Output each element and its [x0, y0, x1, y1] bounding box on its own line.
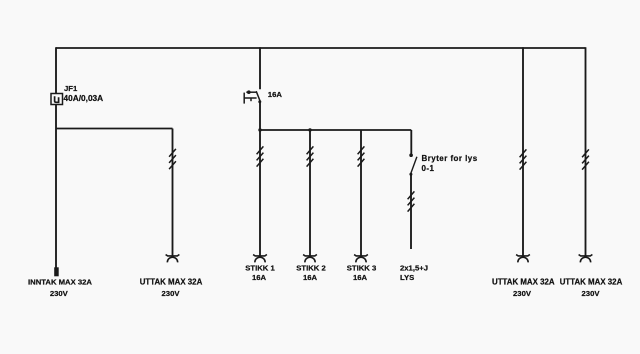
svg-text:230V: 230V: [582, 289, 601, 298]
svg-text:JF1: JF1: [64, 84, 78, 93]
svg-text:230V: 230V: [162, 289, 181, 298]
svg-text:16A: 16A: [252, 273, 267, 282]
svg-text:16A: 16A: [268, 90, 283, 99]
svg-text:UTTAK MAX 32A: UTTAK MAX 32A: [140, 278, 203, 287]
svg-text:Bryter for lys: Bryter for lys: [422, 154, 478, 163]
svg-text:STIKK 1: STIKK 1: [245, 263, 275, 272]
svg-text:UTTAK MAX 32A: UTTAK MAX 32A: [492, 278, 555, 287]
svg-text:16A: 16A: [353, 273, 368, 282]
svg-text:STIKK 2: STIKK 2: [296, 263, 325, 272]
svg-text:LYS: LYS: [400, 273, 414, 282]
svg-text:230V: 230V: [50, 289, 69, 298]
svg-text:2x1,5+J: 2x1,5+J: [400, 263, 428, 272]
svg-text:STIKK 3: STIKK 3: [347, 263, 376, 272]
svg-text:16A: 16A: [303, 273, 318, 282]
svg-text:0-1: 0-1: [422, 164, 435, 173]
svg-text:INNTAK MAX 32A: INNTAK MAX 32A: [28, 278, 92, 287]
svg-text:40A/0,03A: 40A/0,03A: [64, 93, 104, 103]
svg-text:230V: 230V: [513, 289, 532, 298]
svg-text:UTTAK MAX 32A: UTTAK MAX 32A: [560, 278, 623, 287]
